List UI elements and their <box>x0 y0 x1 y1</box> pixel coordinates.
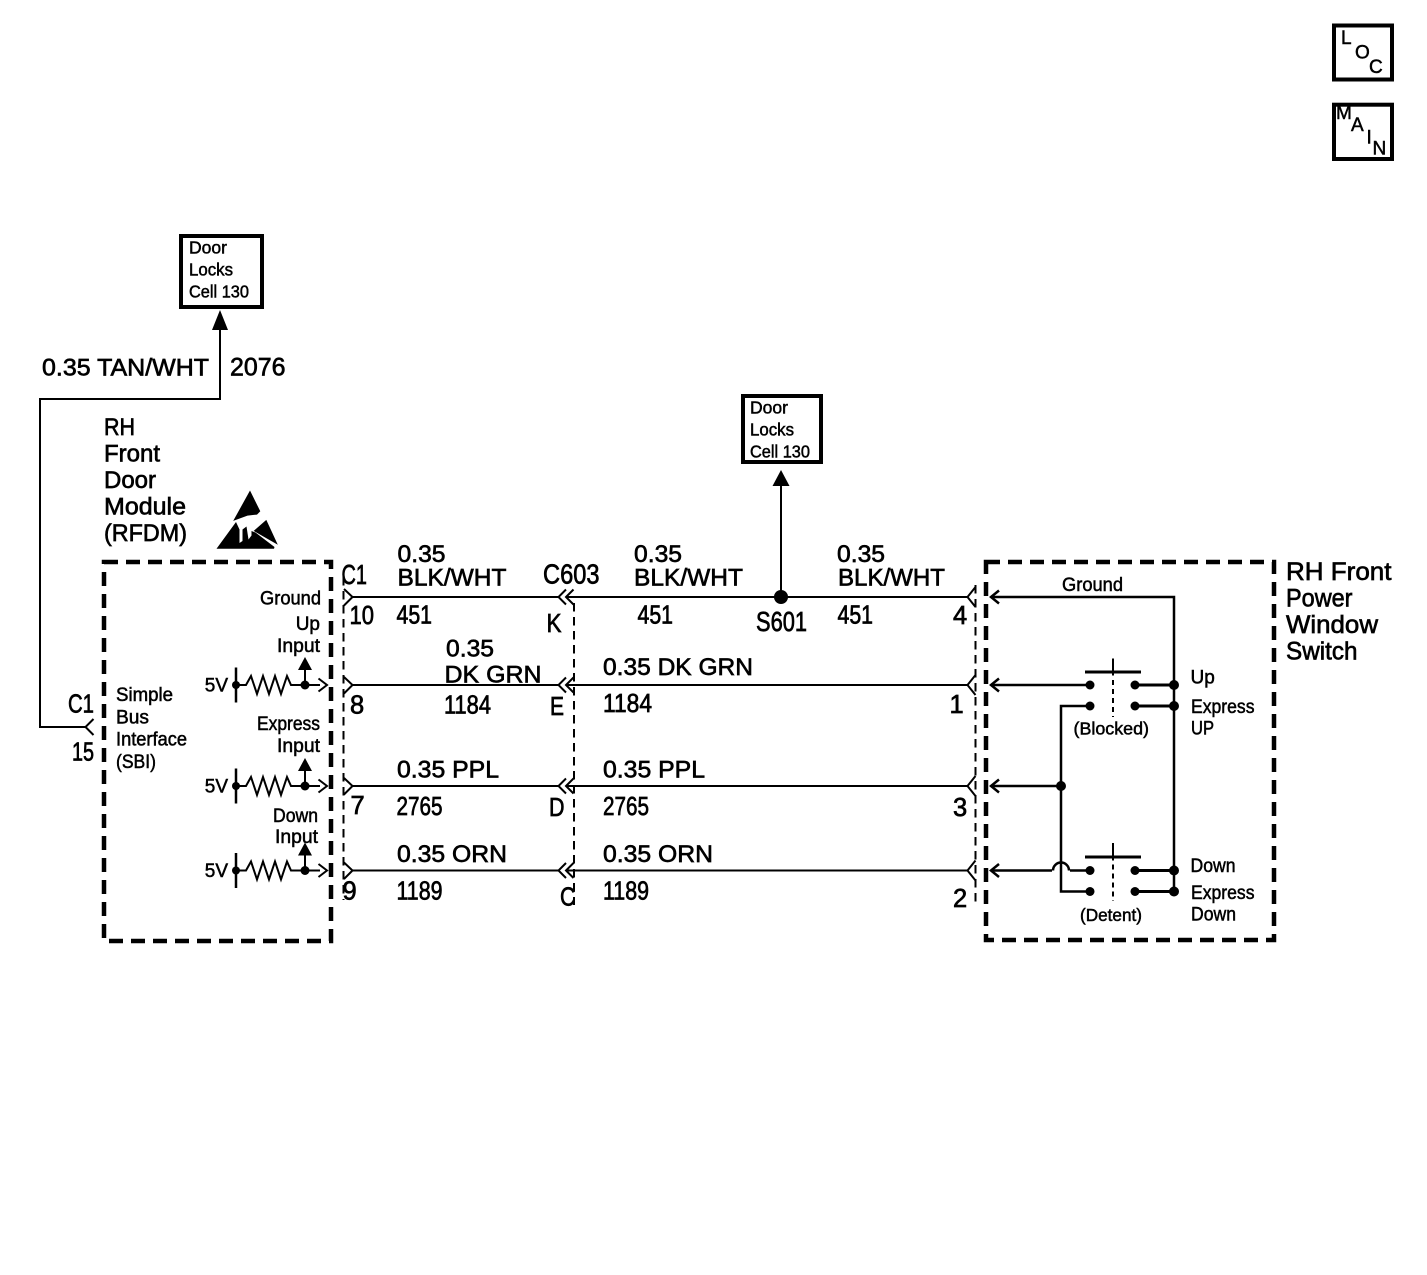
svg-text:(SBI): (SBI) <box>116 752 156 773</box>
Up contact wire with arrow to pin 1 <box>991 679 1090 692</box>
svg-text:2076: 2076 <box>230 354 286 382</box>
wire label 0.35 BLK/WHT (left segment) <box>398 541 507 592</box>
svg-text:Cell 130: Cell 130 <box>750 442 810 462</box>
wire from splice S601 up to Door Locks <box>780 486 782 597</box>
svg-text:Locks: Locks <box>189 260 233 280</box>
svg-text:Window: Window <box>1286 611 1379 639</box>
svg-text:Input: Input <box>275 827 319 848</box>
svg-text:451: 451 <box>397 602 433 630</box>
svg-text:Front: Front <box>104 441 160 468</box>
connector C1 dashed line (module right edge) <box>343 577 345 900</box>
wire with arrow to pin 3 <box>991 780 1061 793</box>
svg-text:4: 4 <box>953 602 967 630</box>
svg-text:Down: Down <box>1191 905 1236 926</box>
wire label 0.35 DK GRN (left segment) <box>445 636 542 689</box>
svg-text:0.35 PPL: 0.35 PPL <box>397 757 499 784</box>
switch connector chevron, pin 4 <box>968 587 976 607</box>
svg-text:15: 15 <box>72 739 94 767</box>
svg-text:0.35 ORN: 0.35 ORN <box>397 841 507 868</box>
svg-text:1184: 1184 <box>444 692 491 720</box>
svg-text:BLK/WHT: BLK/WHT <box>634 565 743 592</box>
switch connector chevron, pin 1 <box>968 675 976 695</box>
wire label 0.35 BLK/WHT (right segment) <box>837 541 945 592</box>
LOC reference box <box>1334 26 1392 80</box>
RH Front Power Window Switch dashed outline box <box>986 562 1274 940</box>
resistor, Express Input pull-up <box>236 777 320 795</box>
svg-text:7: 7 <box>351 792 365 820</box>
module internal label Express Input <box>257 714 321 757</box>
switch connector chevron, pin 3 <box>968 776 976 796</box>
connector chevron at RFDM C1 pin 15 <box>86 719 94 735</box>
svg-text:(Blocked): (Blocked) <box>1074 719 1150 739</box>
wire PPL 2765, C603 to switch pin 3 <box>567 785 968 787</box>
svg-text:D: D <box>549 794 565 822</box>
svg-text:C1: C1 <box>68 691 94 719</box>
Down contact dots <box>1086 866 1140 875</box>
svg-text:C: C <box>1369 57 1383 78</box>
wire ORN 1189, C1 pin9 to C603 pin C <box>353 870 559 872</box>
svg-text:451: 451 <box>838 602 874 630</box>
svg-text:3: 3 <box>953 794 967 822</box>
connector C603 dashed line <box>573 603 575 905</box>
Express Down stub to ground bus <box>1135 890 1174 893</box>
svg-text:Express: Express <box>1191 883 1255 904</box>
svg-text:Express: Express <box>257 714 320 735</box>
wire BLK/WHT 451, C603 to S601 <box>567 596 782 598</box>
C1 pin 9 chevron <box>344 863 353 880</box>
svg-text:Input: Input <box>277 736 321 757</box>
svg-text:S601: S601 <box>756 606 807 637</box>
svg-text:UP: UP <box>1191 719 1214 740</box>
svg-text:1: 1 <box>950 691 964 719</box>
resistor, Up Input pull-up <box>236 676 320 694</box>
svg-text:1189: 1189 <box>603 878 649 906</box>
Door Locks Cell 130 box (top left) <box>181 236 262 307</box>
svg-text:10: 10 <box>350 602 375 630</box>
switch connector chevron, pin 2 <box>968 861 976 881</box>
svg-text:Express: Express <box>1191 697 1255 718</box>
ESD sensitive device symbol <box>217 491 278 549</box>
label Express UP <box>1191 697 1255 740</box>
Up contact dots <box>1086 681 1140 690</box>
Down contact wire with arrow to pin 2 (hops over riser) <box>991 863 1090 878</box>
svg-text:0.35 TAN/WHT: 0.35 TAN/WHT <box>42 355 209 382</box>
module internal label Up Input <box>277 614 321 657</box>
junction dot, Down / ground bus <box>1169 866 1179 876</box>
C603 mated connector chevrons, row 3 <box>559 779 574 794</box>
svg-text:0.35: 0.35 <box>446 636 494 663</box>
svg-text:2765: 2765 <box>397 793 443 821</box>
svg-text:0.35 DK GRN: 0.35 DK GRN <box>603 654 753 681</box>
svg-text:Ground: Ground <box>260 589 321 610</box>
wire DK GRN 1184, C1 pin8 to C603 pin E <box>353 684 559 686</box>
svg-text:Module: Module <box>104 494 186 521</box>
svg-text:Door: Door <box>750 398 788 418</box>
svg-text:A: A <box>1351 115 1364 136</box>
MAIN reference box <box>1334 103 1392 160</box>
junction dot and up-arrow, Down Input <box>298 843 312 876</box>
svg-text:1184: 1184 <box>603 690 652 718</box>
svg-text:Up: Up <box>1191 668 1215 689</box>
svg-text:K: K <box>547 610 562 638</box>
Express UP contact dots <box>1086 702 1140 711</box>
wire BLK/WHT 451, C1 pin10 to C603 pin K <box>353 596 559 598</box>
svg-text:I: I <box>1367 128 1372 149</box>
svg-text:Up: Up <box>296 614 320 635</box>
wire DK GRN 1184, C603 to switch pin 1 <box>567 684 968 686</box>
svg-text:Power: Power <box>1286 585 1353 613</box>
5V pull-up source for Express Input <box>205 769 240 804</box>
C603 mated connector chevrons, row 1 <box>559 590 574 605</box>
arrow into C1 pin 8 <box>319 679 328 692</box>
svg-text:451: 451 <box>638 602 674 630</box>
svg-text:8: 8 <box>350 692 364 720</box>
Express UP left wire down to pin 3 node <box>1061 706 1090 892</box>
svg-text:M: M <box>1336 103 1352 124</box>
switch connector dashed line <box>975 585 977 905</box>
svg-text:Ground: Ground <box>1062 575 1123 596</box>
junction dot, Express Down / ground bus end <box>1169 887 1179 897</box>
svg-text:Bus: Bus <box>116 708 149 729</box>
svg-text:C: C <box>560 884 576 912</box>
RH Front Door Module (RFDM) title <box>104 414 187 547</box>
svg-text:2: 2 <box>953 885 967 913</box>
svg-text:Door: Door <box>189 238 227 258</box>
svg-text:Down: Down <box>273 806 318 827</box>
wire ORN 1189, C603 to switch pin 2 <box>567 870 968 872</box>
svg-text:Simple: Simple <box>116 685 173 706</box>
svg-text:BLK/WHT: BLK/WHT <box>398 565 507 592</box>
svg-text:Cell 130: Cell 130 <box>189 282 249 302</box>
C1 pin 10 chevron <box>344 589 353 606</box>
junction dot and up-arrow, Up Input <box>298 657 312 690</box>
arrow into C1 pin 7 <box>319 780 328 793</box>
svg-text:N: N <box>1373 139 1387 160</box>
splice S601 dot <box>774 590 788 604</box>
5V pull-up source for Up Input <box>205 668 240 703</box>
arrow into Door Locks box (top left) <box>212 310 228 330</box>
C1 pin 8 chevron <box>344 677 353 694</box>
wire label 0.35 BLK/WHT (middle segment) <box>634 541 743 592</box>
svg-text:(Detent): (Detent) <box>1080 905 1142 925</box>
svg-text:C1: C1 <box>342 559 368 590</box>
wire BLK/WHT 451, S601 to switch pin 4 <box>781 596 967 598</box>
C603 mated connector chevrons, row 2 <box>559 678 574 693</box>
junction dot and up-arrow, Express Input <box>298 758 312 791</box>
ground wire inside switch with arrow to pin 4 <box>991 591 1174 892</box>
label Express Down <box>1191 883 1255 926</box>
resistor, Down Input pull-up <box>236 862 320 880</box>
wire 2076 TAN/WHT: riser to Door Locks, horizontal run, left drop to C1 pin 15 <box>40 330 220 727</box>
wire PPL 2765, C1 pin7 to C603 pin D <box>353 785 559 787</box>
svg-text:Switch: Switch <box>1286 638 1358 666</box>
svg-text:Door: Door <box>104 467 156 494</box>
svg-text:E: E <box>550 693 564 721</box>
svg-text:RH Front: RH Front <box>1286 558 1392 586</box>
Express Down contact dots <box>1086 887 1140 896</box>
junction dot, Express UP / ground bus <box>1169 701 1179 711</box>
svg-text:1189: 1189 <box>397 878 443 906</box>
Up switch bar (Blocked contact) <box>1085 659 1141 718</box>
Door Locks Cell 130 box (upper middle) <box>743 396 821 462</box>
svg-text:(RFDM): (RFDM) <box>104 520 187 547</box>
module internal label Down Input <box>273 806 319 848</box>
svg-text:Input: Input <box>277 636 321 657</box>
svg-text:0.35 ORN: 0.35 ORN <box>603 841 713 868</box>
RFDM module dashed outline box <box>104 562 331 941</box>
svg-text:0.35 PPL: 0.35 PPL <box>603 757 705 784</box>
Simple Bus Interface (SBI) label <box>116 685 187 773</box>
svg-text:RH: RH <box>104 414 135 441</box>
C1 pin 7 chevron <box>344 778 353 795</box>
svg-text:C603: C603 <box>543 559 600 590</box>
svg-text:5V: 5V <box>205 861 229 882</box>
RH Front Power Window Switch title <box>1286 558 1392 666</box>
junction dot on Express riser at pin 3 <box>1056 781 1066 791</box>
svg-text:9: 9 <box>343 878 357 906</box>
svg-text:5V: 5V <box>205 676 229 697</box>
svg-text:Locks: Locks <box>750 420 794 440</box>
svg-text:5V: 5V <box>205 777 229 798</box>
svg-text:Down: Down <box>1191 856 1236 877</box>
svg-text:L: L <box>1341 28 1352 49</box>
svg-text:2765: 2765 <box>603 793 649 821</box>
5V pull-up source for Down Input <box>205 853 240 888</box>
Express UP stub to ground bus <box>1135 705 1174 708</box>
svg-text:BLK/WHT: BLK/WHT <box>838 565 945 592</box>
Down switch bar (Detent contact) <box>1085 843 1141 901</box>
Up contact stub to ground bus <box>1135 684 1174 687</box>
Down contact stub to ground bus <box>1135 869 1174 872</box>
junction dot, Up / ground bus <box>1169 680 1179 690</box>
arrow into C1 pin 9 <box>319 864 328 877</box>
svg-text:O: O <box>1355 43 1370 64</box>
svg-text:DK GRN: DK GRN <box>445 662 542 689</box>
arrow into Door Locks box (middle) <box>773 470 790 486</box>
svg-text:Interface: Interface <box>116 730 187 751</box>
C603 mated connector chevrons, row 4 <box>559 863 574 878</box>
